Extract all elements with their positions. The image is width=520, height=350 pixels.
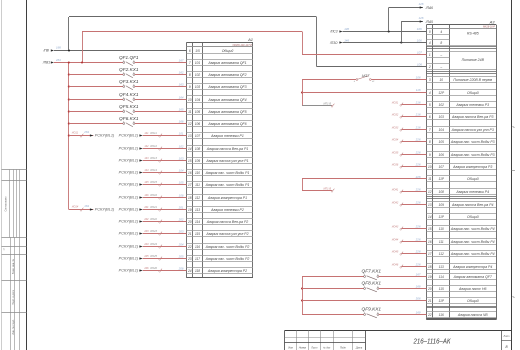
- svg-text:109: 109: [195, 159, 201, 163]
- svg-text:102: 102: [179, 144, 184, 148]
- svg-text:Авария насоса Вен-ра Р3: Авария насоса Вен-ра Р3: [451, 115, 494, 119]
- svg-text:202: 202: [143, 218, 149, 221]
- svg-text:22б: 22б: [415, 262, 421, 266]
- svg-text:Лист: Лист: [310, 346, 317, 349]
- svg-text:11б: 11б: [416, 88, 421, 92]
- svg-text:107: 107: [439, 165, 445, 169]
- svg-text:13б: 13б: [344, 27, 349, 31]
- svg-text:Авария компрессора Р1: Авария компрессора Р1: [207, 196, 247, 200]
- svg-text:1б6: 1б6: [179, 119, 184, 123]
- svg-text:113: 113: [439, 265, 444, 269]
- svg-text:Авария тележки Р2: Авария тележки Р2: [210, 208, 244, 212]
- svg-text:8: 8: [429, 140, 431, 144]
- svg-text:Авария компрессора Р2: Авария компрессора Р2: [207, 269, 247, 273]
- svg-text:ИО13: ИО13: [150, 157, 157, 160]
- svg-text:16: 16: [428, 240, 432, 244]
- svg-text:ИО32: ИО32: [392, 113, 399, 116]
- svg-text:ИО14: ИО14: [72, 206, 79, 209]
- svg-text:ИО22: ИО22: [150, 218, 157, 221]
- svg-text:110: 110: [439, 227, 444, 231]
- svg-text:1б8: 1б8: [416, 284, 421, 288]
- svg-text:ИО36: ИО36: [392, 163, 399, 166]
- svg-text:115: 115: [439, 287, 444, 291]
- svg-text:6: 6: [189, 49, 191, 53]
- svg-text:Подп. и дата: Подп. и дата: [12, 290, 15, 305]
- svg-text:1: 1: [429, 53, 431, 57]
- svg-text:1б7: 1б7: [179, 58, 184, 62]
- svg-text:Согласовано: Согласовано: [5, 196, 8, 212]
- svg-text:1б3: 1б3: [179, 82, 184, 86]
- svg-text:203: 203: [178, 229, 184, 233]
- svg-text:11Р: 11Р: [439, 177, 445, 181]
- svg-text:203: 203: [143, 230, 149, 233]
- svg-text:104: 104: [195, 98, 201, 102]
- svg-text:Авария тележки Р4: Авария тележки Р4: [455, 190, 489, 194]
- svg-text:РСКУ(BL1): РСКУ(BL1): [119, 269, 139, 273]
- svg-text:144: 144: [144, 169, 149, 172]
- svg-text:106: 106: [439, 153, 445, 157]
- svg-text:21: 21: [427, 299, 432, 303]
- svg-text:0: 0: [429, 30, 431, 34]
- svg-text:10б: 10б: [417, 27, 422, 31]
- svg-text:105: 105: [179, 180, 184, 184]
- svg-text:QF9.KX1: QF9.KX1: [362, 307, 382, 312]
- svg-text:1б9: 1б9: [416, 310, 421, 314]
- svg-text:Авария нас. чист Воды Р1: Авария нас. чист Воды Р1: [205, 183, 250, 187]
- svg-text:2б1: 2б1: [55, 58, 61, 62]
- svg-text:112: 112: [439, 252, 444, 256]
- svg-text:116: 116: [195, 245, 200, 249]
- svg-text:18: 18: [428, 265, 432, 269]
- svg-text:UG7: UG7: [362, 74, 371, 78]
- svg-text:Общий: Общий: [467, 91, 479, 95]
- svg-text:102: 102: [195, 73, 201, 77]
- svg-text:ИО45: ИО45: [392, 250, 399, 253]
- svg-text:ИО15: ИО15: [150, 181, 157, 184]
- svg-text:Питание 220В В перем: Питание 220В В перем: [453, 78, 492, 82]
- svg-text:ИО34: ИО34: [392, 138, 399, 141]
- svg-text:111: 111: [439, 240, 444, 244]
- svg-text:106: 106: [195, 122, 201, 126]
- svg-text:РСКУ(BL1): РСКУ(BL1): [119, 183, 139, 187]
- svg-text:12Р: 12Р: [438, 91, 445, 95]
- svg-text:РСКУ(BL1): РСКУ(BL1): [119, 134, 139, 138]
- svg-text:QF8.KX1: QF8.KX1: [362, 281, 382, 286]
- svg-text:Подп: Подп: [340, 346, 346, 349]
- svg-text:ИО41: ИО41: [392, 188, 399, 191]
- svg-text:РСКУ(BL1): РСКУ(BL1): [119, 245, 139, 249]
- svg-text:13: 13: [188, 134, 192, 138]
- svg-text:10: 10: [439, 78, 443, 82]
- svg-text:Авария автомата QF6: Авария автомата QF6: [207, 122, 246, 126]
- svg-text:/ПС3: /ПС3: [329, 30, 337, 34]
- svg-text:1б4: 1б4: [179, 95, 184, 99]
- svg-text:Авария автомата QF4: Авария автомата QF4: [207, 98, 246, 102]
- svg-text:Авария нас. чист Воды Р3: Авария нас. чист Воды Р3: [450, 140, 495, 144]
- svg-text:109: 109: [439, 203, 445, 207]
- svg-text:104: 104: [439, 128, 445, 132]
- svg-text:Лист: Лист: [503, 336, 510, 338]
- svg-text:Авария автомата QF7: Авария автомата QF7: [453, 275, 493, 279]
- svg-text:QF4.KX1: QF4.KX1: [119, 92, 139, 97]
- svg-text:10б: 10б: [416, 76, 421, 80]
- svg-text:12б: 12б: [419, 16, 424, 20]
- svg-text:112: 112: [195, 196, 200, 200]
- svg-text:ИО25: ИО25: [150, 255, 157, 258]
- svg-text:204: 204: [178, 242, 184, 246]
- svg-text:20: 20: [187, 220, 192, 224]
- svg-text:QF3.KX1: QF3.KX1: [119, 79, 139, 84]
- svg-text:/ПВ: /ПВ: [42, 48, 49, 52]
- svg-text:РСКУ(BL1): РСКУ(BL1): [119, 171, 139, 175]
- svg-text:22б: 22б: [415, 237, 421, 241]
- svg-text:ИО24: ИО24: [150, 243, 157, 246]
- svg-text:РСКУ(BL1): РСКУ(BL1): [119, 232, 139, 236]
- svg-text:ИО11: ИО11: [150, 132, 157, 135]
- svg-text:Питание 24В: Питание 24В: [462, 58, 485, 62]
- svg-text:RS-485: RS-485: [467, 32, 479, 36]
- svg-text:22б: 22б: [415, 224, 421, 228]
- svg-text:21: 21: [187, 232, 192, 236]
- svg-text:14: 14: [428, 215, 432, 219]
- svg-text:Авария насоса узл упл Р3: Авария насоса узл упл Р3: [451, 128, 494, 132]
- svg-text:ИО12: ИО12: [150, 145, 157, 148]
- svg-text:РСКУ(BL1): РСКУ(BL1): [95, 208, 115, 212]
- svg-text:22б: 22б: [415, 137, 421, 141]
- svg-text:Авария насоса узл упл Р1: Авария насоса узл упл Р1: [205, 159, 248, 163]
- svg-text:108: 108: [439, 190, 445, 194]
- svg-text:QF1.QF1: QF1.QF1: [119, 55, 139, 60]
- svg-text:6: 6: [429, 115, 431, 119]
- svg-text:101: 101: [195, 61, 201, 65]
- svg-text:143: 143: [144, 157, 149, 160]
- svg-text:Изм: Изм: [288, 346, 293, 349]
- svg-text:Общий: Общий: [467, 299, 479, 303]
- svg-text:11: 11: [188, 110, 192, 114]
- svg-text:22б: 22б: [415, 187, 421, 191]
- svg-text:103: 103: [439, 115, 445, 119]
- svg-text:142: 142: [144, 145, 149, 148]
- svg-text:Авария насоса узл упл Р2: Авария насоса узл упл Р2: [205, 232, 248, 236]
- svg-text:/ПА5: /ПА5: [425, 20, 433, 24]
- svg-text:ИО33: ИО33: [392, 126, 399, 129]
- svg-text:8: 8: [189, 73, 191, 77]
- svg-text:5: 5: [429, 103, 431, 107]
- svg-text:Авария насоса Вен-ра Р2: Авария насоса Вен-ра Р2: [206, 220, 249, 224]
- svg-text:ИП1-В: ИП1-В: [324, 188, 332, 191]
- svg-text:Авария автомата QF3: Авария автомата QF3: [207, 85, 246, 89]
- svg-text:110: 110: [195, 171, 200, 175]
- svg-text:РСКУ(BL1): РСКУ(BL1): [119, 159, 139, 163]
- svg-text:15: 15: [188, 159, 192, 163]
- svg-text:205: 205: [178, 254, 184, 258]
- svg-text:Авария нас. чист Воды Р2: Авария нас. чист Воды Р2: [205, 257, 250, 261]
- svg-text:ИО21: ИО21: [150, 206, 157, 209]
- svg-text:7: 7: [429, 128, 431, 132]
- svg-text:Общий: Общий: [467, 177, 479, 181]
- svg-text:103: 103: [179, 156, 184, 160]
- svg-text:10б: 10б: [417, 63, 422, 67]
- svg-text:2: 2: [428, 65, 431, 69]
- svg-text:16: 16: [188, 171, 192, 175]
- svg-text:Авария нас. чист Воды Р4: Авария нас. чист Воды Р4: [450, 240, 495, 244]
- svg-text:РСКУ(BL1): РСКУ(BL1): [119, 208, 139, 212]
- svg-text:Авария нас. чист Воды Р4: Авария нас. чист Воды Р4: [450, 227, 495, 231]
- svg-text:205: 205: [143, 255, 149, 258]
- svg-text:201: 201: [143, 206, 149, 209]
- svg-text:№ док: № док: [323, 346, 331, 349]
- svg-text:117: 117: [195, 257, 200, 261]
- svg-text:1б2: 1б2: [179, 70, 184, 74]
- svg-text:Авария насоса Вен-ра Р1: Авария насоса Вен-ра Р1: [206, 147, 249, 151]
- svg-text:ИО23: ИО23: [150, 230, 157, 233]
- svg-text:22: 22: [187, 245, 192, 249]
- svg-text:1б6: 1б6: [56, 46, 61, 50]
- svg-text:4: 4: [429, 91, 431, 95]
- svg-text:23: 23: [187, 257, 192, 261]
- svg-text:14: 14: [188, 147, 192, 151]
- svg-text:4: 4: [429, 41, 431, 45]
- svg-text:1б5: 1б5: [179, 107, 184, 111]
- svg-text:1/5: 1/5: [195, 49, 200, 53]
- svg-text:7: 7: [189, 61, 191, 65]
- svg-text:ИО11: ИО11: [72, 132, 79, 135]
- svg-text:1б7: 1б7: [416, 272, 421, 276]
- svg-text:201: 201: [178, 205, 184, 209]
- svg-text:11Р: 11Р: [439, 299, 445, 303]
- svg-text:113: 113: [195, 208, 200, 212]
- svg-text:QF6.KX1: QF6.KX1: [119, 116, 139, 121]
- svg-text:/ПВ1: /ПВ1: [42, 61, 50, 65]
- svg-text:8: 8: [440, 41, 442, 45]
- svg-text:РСКУ(BL1): РСКУ(BL1): [119, 196, 139, 200]
- svg-text:11: 11: [428, 177, 432, 181]
- svg-text:Авария тележки Р3: Авария тележки Р3: [455, 103, 489, 107]
- svg-text:102: 102: [439, 103, 445, 107]
- svg-text:Авария насос Н6: Авария насос Н6: [458, 287, 487, 291]
- svg-text:Авария автомата QF2: Авария автомата QF2: [207, 73, 246, 77]
- svg-text:20: 20: [427, 287, 432, 291]
- svg-text:ИО31: ИО31: [392, 101, 399, 104]
- svg-text:116: 116: [439, 313, 444, 317]
- svg-text:22б: 22б: [415, 249, 421, 253]
- svg-text:11Р: 11Р: [439, 215, 445, 219]
- svg-text:ИП1-В: ИП1-В: [324, 102, 332, 105]
- svg-text:ИО46: ИО46: [392, 263, 399, 266]
- svg-text:22б: 22б: [415, 150, 421, 154]
- svg-text:РСКУ(BL1): РСКУ(BL1): [119, 220, 139, 224]
- svg-text:17: 17: [428, 252, 432, 256]
- svg-text:22б: 22б: [415, 200, 421, 204]
- svg-text:10: 10: [428, 165, 432, 169]
- svg-text:14б: 14б: [344, 38, 349, 42]
- svg-text:216–1116–АК: 216–1116–АК: [413, 338, 452, 345]
- svg-text:Общий: Общий: [222, 49, 234, 53]
- svg-text:Авария нас. чист Воды Р4: Авария нас. чист Воды Р4: [450, 252, 495, 256]
- svg-text:12: 12: [188, 122, 192, 126]
- svg-text:12б: 12б: [419, 2, 424, 6]
- svg-text:114: 114: [195, 220, 200, 224]
- svg-text:106: 106: [179, 193, 184, 197]
- svg-text:Номер: Номер: [299, 346, 307, 349]
- svg-text:Авария автомата QF1: Авария автомата QF1: [207, 61, 246, 65]
- svg-text:10: 10: [188, 98, 192, 102]
- svg-text:30б: 30б: [416, 296, 421, 300]
- svg-text:104: 104: [179, 168, 184, 172]
- svg-text:107: 107: [417, 51, 422, 55]
- svg-text:141: 141: [144, 132, 149, 135]
- svg-text:Авария насоса ЧВ: Авария насоса ЧВ: [457, 313, 488, 317]
- svg-text:ИО43: ИО43: [392, 225, 399, 228]
- svg-text:РСКУ(BL1): РСКУ(BL1): [119, 257, 139, 261]
- svg-text:ИО42: ИО42: [392, 201, 399, 204]
- svg-text:9: 9: [429, 153, 431, 157]
- svg-text:108: 108: [195, 147, 201, 151]
- svg-text:204: 204: [143, 243, 149, 246]
- svg-text:А1: А1: [247, 37, 253, 42]
- svg-text:22: 22: [427, 313, 432, 317]
- svg-text:ИО16: ИО16: [150, 194, 157, 197]
- svg-text:Взам. инв. №: Взам. инв. №: [12, 258, 15, 274]
- svg-text:19: 19: [428, 275, 432, 279]
- svg-text:13: 13: [428, 203, 432, 207]
- svg-text:ИО26: ИО26: [150, 267, 157, 270]
- svg-text:206: 206: [178, 266, 184, 270]
- svg-text:/П3О: /П3О: [329, 41, 338, 45]
- svg-text:115: 115: [195, 232, 200, 236]
- svg-text:Авария автомата QF5: Авария автомата QF5: [207, 110, 246, 114]
- svg-text:Авария нас. чист Воды Р3: Авария нас. чист Воды Р3: [450, 153, 495, 157]
- svg-text:21б: 21б: [415, 100, 421, 104]
- svg-text:24: 24: [187, 269, 192, 273]
- svg-text:QF5.KX1: QF5.KX1: [119, 104, 139, 109]
- svg-text:Авария нас. чист Воды Р2: Авария нас. чист Воды Р2: [205, 245, 250, 249]
- svg-text:22б: 22б: [415, 175, 421, 179]
- svg-text:18: 18: [188, 196, 192, 200]
- svg-text:118: 118: [195, 269, 200, 273]
- svg-text:Инв. № подл.: Инв. № подл.: [12, 319, 15, 335]
- svg-text:QF2.KX1: QF2.KX1: [119, 67, 139, 72]
- svg-text:202: 202: [178, 217, 184, 221]
- svg-text:22б: 22б: [415, 162, 421, 166]
- svg-text:РСКУ(BL1): РСКУ(BL1): [95, 134, 115, 138]
- svg-text:1б1: 1б1: [84, 204, 89, 208]
- svg-text:Авария нас. чист Воды Р1: Авария нас. чист Воды Р1: [205, 171, 250, 175]
- svg-text:114: 114: [439, 275, 444, 279]
- svg-text:103: 103: [195, 85, 201, 89]
- svg-text:Авария насоса Вен-ра Р4: Авария насоса Вен-ра Р4: [451, 203, 494, 207]
- svg-text:/ПА6: /ПА6: [425, 6, 433, 10]
- svg-text:Авария компрессора Р4: Авария компрессора Р4: [452, 265, 492, 269]
- svg-text:3: 3: [429, 78, 431, 82]
- svg-text:107: 107: [195, 134, 201, 138]
- svg-text:101: 101: [179, 131, 184, 135]
- svg-text:2б1: 2б1: [83, 130, 89, 134]
- svg-text:4: 4: [440, 30, 442, 34]
- svg-text:10б: 10б: [417, 38, 422, 42]
- svg-text:105: 105: [439, 140, 445, 144]
- svg-text:РСКУ(BL1): РСКУ(BL1): [119, 147, 139, 151]
- svg-text:ИО14: ИО14: [150, 169, 157, 172]
- svg-text:111: 111: [195, 183, 200, 187]
- svg-text:9: 9: [189, 85, 191, 89]
- svg-text:21б: 21б: [415, 125, 421, 129]
- svg-text:Авария тележки Р1: Авария тележки Р1: [210, 134, 244, 138]
- svg-text:12: 12: [428, 190, 432, 194]
- svg-text:–: –: [439, 53, 442, 57]
- svg-text:146: 146: [144, 194, 149, 197]
- svg-text:206: 206: [143, 267, 149, 270]
- svg-text:15: 15: [428, 227, 432, 231]
- svg-text:ИО35: ИО35: [392, 151, 399, 154]
- svg-text:Дата: Дата: [355, 346, 363, 349]
- svg-text:105: 105: [195, 110, 201, 114]
- svg-text:–: –: [439, 65, 442, 69]
- svg-text:А3: А3: [489, 20, 496, 25]
- svg-text:145: 145: [144, 181, 149, 184]
- svg-text:ИО44: ИО44: [392, 238, 399, 241]
- svg-text:21б: 21б: [415, 112, 421, 116]
- svg-text:17: 17: [188, 183, 192, 187]
- svg-text:QF7.KX1: QF7.KX1: [362, 269, 382, 274]
- svg-text:Общий: Общий: [467, 215, 479, 219]
- svg-text:Авария компрессора Р3: Авария компрессора Р3: [452, 165, 492, 169]
- svg-text:19: 19: [188, 208, 192, 212]
